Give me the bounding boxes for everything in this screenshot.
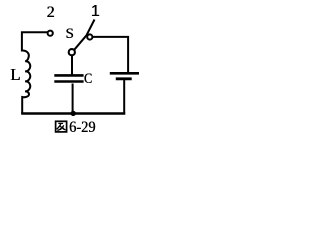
switch lever: [74, 20, 95, 51]
caption character 图 drawn as strokes: [54, 119, 69, 134]
wire capacitor bottom lead: [72, 84, 74, 115]
label L: [8, 66, 23, 83]
label 1: [88, 4, 103, 20]
caption text 6-29: [69, 120, 95, 136]
battery long plate: [110, 72, 139, 75]
capacitor C top plate: [54, 74, 83, 77]
wire battery bottom lead: [123, 80, 125, 115]
wire top-right horizontal from contact 1 to battery corner: [93, 37, 129, 73]
label S: [62, 27, 77, 42]
junction dot capacitor/bottom wire: [71, 111, 76, 116]
label 2: [43, 5, 58, 21]
contact 2 circle: [48, 31, 53, 36]
wire bottom horizontal: [21, 112, 125, 114]
label C: [83, 72, 94, 87]
inductor L coil: [21, 50, 30, 114]
contact 1 circle: [87, 34, 92, 39]
capacitor C bottom plate: [54, 80, 83, 83]
wire switch pole to capacitor top: [71, 56, 73, 76]
battery short plate: [116, 77, 132, 80]
wire top-left horizontal from inductor corner to contact 2: [22, 32, 49, 51]
switch pole circle: [69, 49, 75, 55]
